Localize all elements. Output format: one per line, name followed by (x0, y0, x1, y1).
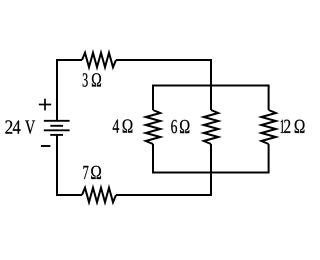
battery minus polarity mark (41, 145, 51, 147)
wire: top horizontal left segment (56, 59, 82, 61)
wire: bottom horizontal left segment (56, 194, 82, 196)
wire: feed vertical from top wire down to parallel-bank top rail (210, 59, 212, 86)
resistor R2 4 ohm (vertical zigzag) (146, 110, 161, 144)
label: 24 V source value (5, 120, 35, 134)
resistor R1 3 ohm (zigzag on top wire) (82, 53, 116, 68)
wire: left vertical from top-left corner down to battery top plate (56, 60, 58, 121)
wire: bottom horizontal right segment (116, 194, 212, 196)
battery V1 plate 3 (long) (44, 129, 70, 131)
resistor R4 12 ohm (vertical zigzag) (261, 110, 276, 144)
wire: left vertical from battery bottom plate down to bottom-left corner (56, 135, 58, 196)
label: 3 ohm value (83, 73, 101, 86)
battery V1 plate 4 (short, negative) (50, 134, 63, 136)
battery plus polarity mark (39, 99, 51, 111)
resistor R5 7 ohm (zigzag on bottom wire) (82, 188, 116, 203)
label: 12 ohm value (281, 120, 305, 133)
label: 4 ohm value (113, 119, 133, 132)
wire: 12-ohm branch top lead (268, 85, 270, 111)
label: 7 ohm value (83, 166, 101, 179)
wire: top horizontal right segment to feed corner (116, 59, 211, 61)
wire: parallel-bank top rail (153, 85, 269, 87)
wire: 6-ohm branch top lead (210, 86, 212, 111)
label: 6 ohm value (171, 120, 189, 133)
resistor R3 6 ohm (vertical zigzag) (204, 110, 219, 144)
wire: 6-ohm branch bottom lead through bottom rail down to bottom wire (210, 144, 212, 195)
battery V1 plate 1 (long, positive) (44, 120, 70, 122)
wire: 12-ohm branch bottom lead (268, 144, 270, 174)
wire: parallel-bank bottom rail (153, 172, 269, 174)
battery V1 plate 2 (short) (50, 125, 63, 127)
wire: 4-ohm branch bottom lead (152, 144, 154, 174)
wire: 4-ohm branch top lead (152, 85, 154, 111)
